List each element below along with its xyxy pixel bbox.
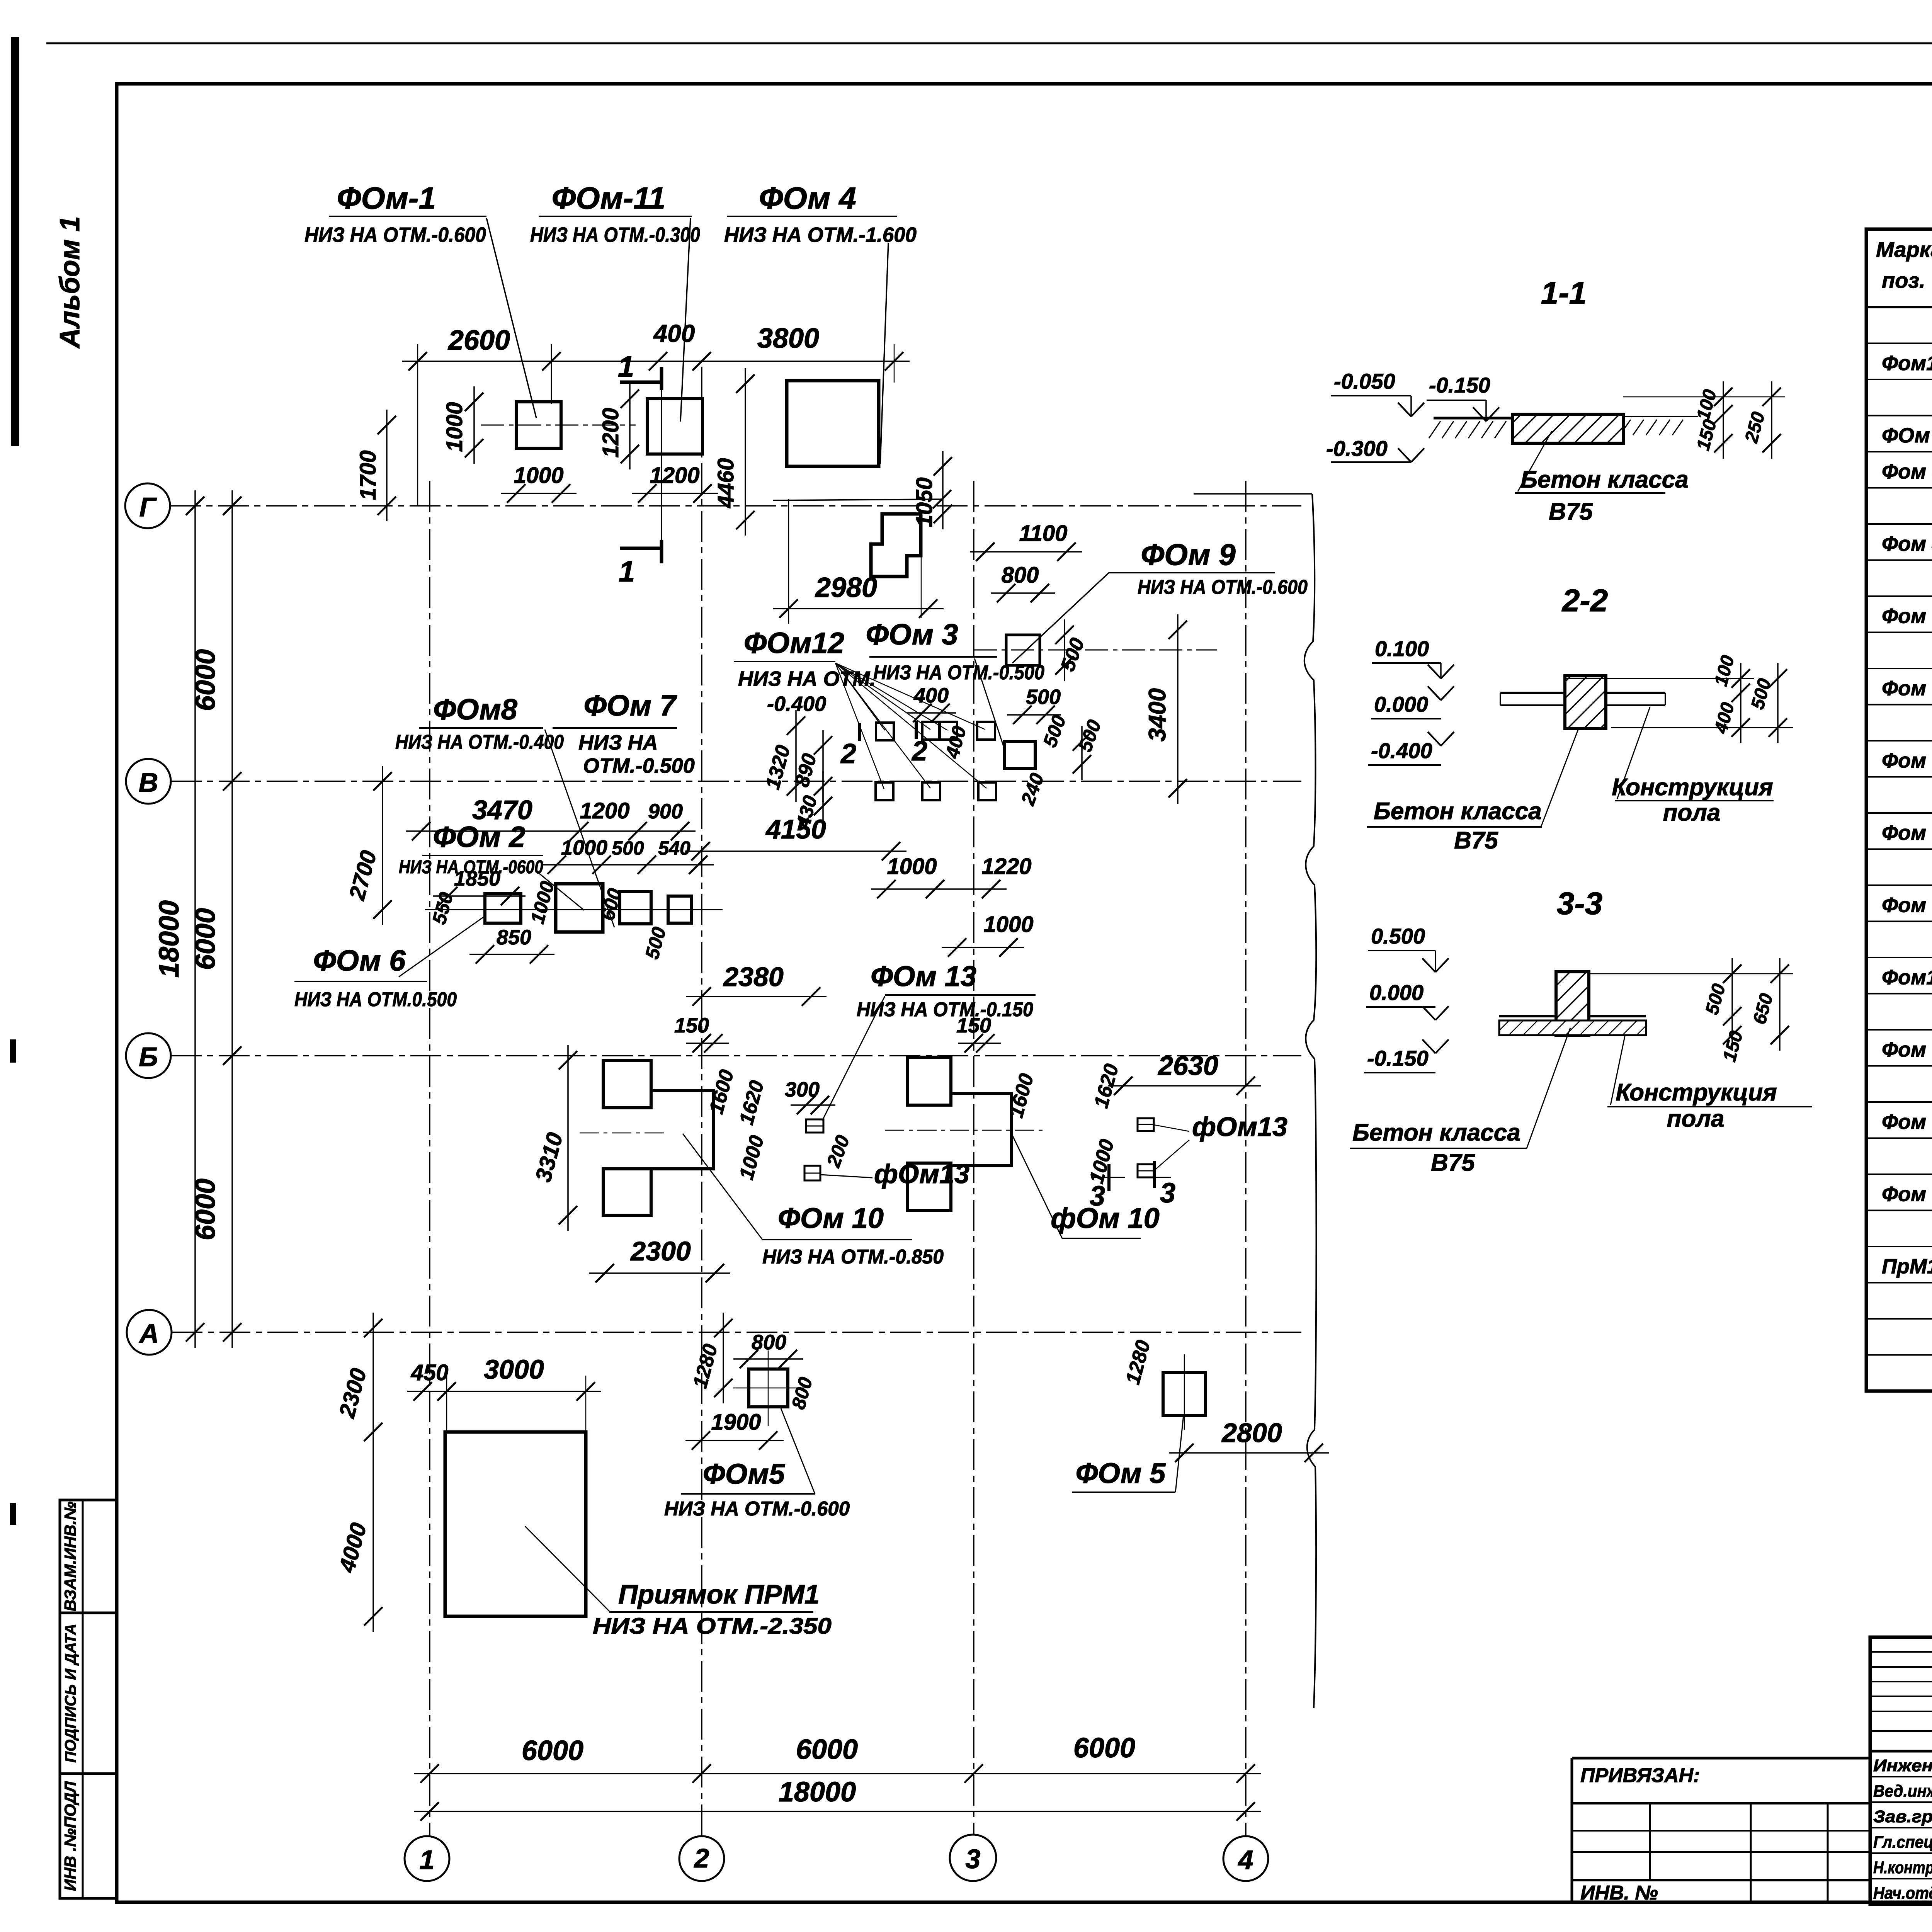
dim 2700 rotated (382, 766, 383, 925)
svg-text:850: 850 (497, 926, 531, 949)
dim 1200 left of ФОм-11 (629, 383, 631, 469)
svg-text:НИЗ НА ОТМ.-2.350: НИЗ НА ОТМ.-2.350 (593, 1614, 832, 1639)
svg-text:3: 3 (1160, 1178, 1175, 1209)
dims right of 2-2 (1611, 727, 1793, 728)
svg-text:1850: 1850 (454, 867, 500, 890)
svg-text:400: 400 (913, 684, 949, 707)
axis Б line (171, 1055, 1301, 1056)
svg-text:150: 150 (956, 1014, 991, 1037)
svg-text:поз.: поз. (1882, 268, 1925, 293)
svg-text:1100: 1100 (1019, 521, 1068, 546)
svg-text:0.000: 0.000 (1369, 980, 1423, 1005)
svg-text:ОТМ.-0.500: ОТМ.-0.500 (583, 754, 695, 777)
svg-text:ФОм 2: ФОм 2 (433, 821, 526, 854)
svg-text:НИЗ НА ОТМ.-0.150: НИЗ НА ОТМ.-0.150 (857, 998, 1033, 1021)
svg-text:400: 400 (653, 320, 695, 347)
svg-text:Фом 13: Фом 13 (1882, 1183, 1932, 1206)
foundation ФОм10 right top square (907, 1057, 951, 1105)
svg-text:фОм 10: фОм 10 (1051, 1202, 1160, 1234)
svg-text:1-1: 1-1 (1541, 276, 1587, 311)
foundation ФОм13 right 1 (1138, 1118, 1154, 1131)
axis 2 circle (679, 1836, 724, 1881)
dims right of 3-3 (1589, 973, 1793, 975)
leader ФОм5 left (781, 1408, 815, 1494)
dim 450/3000 (407, 1391, 601, 1392)
stamp strip border (60, 1500, 117, 1898)
centerline ФОм10 left (580, 1133, 665, 1134)
svg-text:0.100: 0.100 (1375, 636, 1429, 661)
dim 800 ФОм9 (991, 592, 1055, 594)
dim 2800 (1169, 1452, 1329, 1454)
svg-text:4150: 4150 (765, 814, 826, 844)
floor slab right 2-2 (1606, 692, 1665, 694)
floor slab 3-3 hatched (1499, 1015, 1556, 1017)
svg-text:Б: Б (139, 1042, 158, 1072)
dim 1100 (970, 551, 1082, 553)
axis 3 line (973, 481, 975, 1835)
svg-text:1000: 1000 (887, 854, 937, 879)
dim chain 18000 vertical (194, 490, 196, 1348)
foundation section 2-2 hatched (1565, 676, 1606, 729)
svg-text:фОм13: фОм13 (1192, 1112, 1287, 1142)
svg-text:А: А (139, 1318, 159, 1349)
dim 3310 rotated (567, 1045, 569, 1231)
leader ФОм8 (545, 730, 614, 927)
leader ФОм13 top (822, 996, 885, 1121)
svg-text:-0.050: -0.050 (1334, 369, 1395, 393)
section mark 1 top (620, 381, 662, 384)
svg-text:ФОм 6: ФОм 6 (313, 944, 406, 977)
axis 1 circle (405, 1836, 449, 1881)
dim 3400 (1177, 614, 1179, 804)
svg-text:В: В (139, 767, 158, 798)
svg-text:Фом 6: Фом 6 (1882, 677, 1932, 700)
section mark 3 right (1153, 1161, 1156, 1188)
svg-text:540: 540 (658, 837, 690, 859)
foundation ФОм 2 (556, 884, 603, 932)
svg-text:ВЗАМ.ИНВ.№: ВЗАМ.ИНВ.№ (61, 1502, 79, 1611)
svg-text:1700: 1700 (355, 450, 381, 500)
svg-text:Фом 5: Фом 5 (1882, 605, 1932, 628)
dim 400 cluster (907, 712, 956, 714)
svg-text:2-2: 2-2 (1561, 583, 1608, 618)
foundation ФОм13 small 2 (804, 1166, 820, 1180)
svg-text:ФОм 13: ФОм 13 (871, 960, 976, 992)
dim chain 1000/500/540 (541, 864, 714, 866)
svg-text:Конструкция: Конструкция (1612, 774, 1773, 801)
dim 2380 Б (686, 996, 827, 997)
svg-text:В75: В75 (1431, 1150, 1475, 1176)
svg-text:6000: 6000 (522, 1735, 583, 1766)
dim 500 rotated right of block (1081, 726, 1083, 780)
svg-text:-0.400: -0.400 (1371, 738, 1432, 763)
svg-text:ФОм 9: ФОм 9 (1141, 537, 1236, 571)
dim chain 3470/1200/900 (406, 830, 696, 832)
dim 1200 below ФОм-11 (632, 493, 718, 494)
svg-text:3000: 3000 (484, 1354, 544, 1384)
centerline ФОм10 right (885, 1130, 1043, 1131)
svg-text:ФОм8: ФОм8 (433, 693, 518, 726)
svg-text:18000: 18000 (779, 1777, 856, 1808)
svg-text:НИЗ НА ОТМ.-0.600: НИЗ НА ОТМ.-0.600 (664, 1498, 850, 1520)
svg-text:1: 1 (420, 1845, 435, 1875)
foundation ФОм 7 block (620, 891, 651, 924)
leader фОм13 mid (820, 1175, 872, 1178)
ground line left (1434, 417, 1512, 420)
foundation ФОм10 left bottom square (603, 1169, 651, 1215)
svg-text:Фом 8: Фом 8 (1882, 821, 1932, 845)
leader ФОм10 left (683, 1134, 762, 1240)
ground line right (1623, 416, 1698, 417)
svg-text:Фом 11: Фом 11 (1882, 1038, 1932, 1061)
leader ФОм 2 (535, 870, 584, 910)
svg-text:300: 300 (785, 1078, 820, 1101)
leaders ФОм12 fan (835, 663, 885, 730)
section mark 2 left (858, 723, 861, 741)
svg-text:1220: 1220 (981, 854, 1031, 879)
album page top edge (46, 43, 1932, 44)
svg-text:-0.150: -0.150 (1367, 1046, 1429, 1070)
svg-text:Фом 3: Фом 3 (1882, 460, 1932, 483)
svg-text:ИНВ. №: ИНВ. № (1580, 1882, 1658, 1904)
axis Г line (170, 505, 1301, 507)
foundation ФОм-11 (647, 399, 702, 454)
leader ФОм 3 (975, 658, 1005, 750)
svg-text:2: 2 (840, 738, 856, 769)
svg-text:Вед.инж: Вед.инж (1873, 1782, 1932, 1801)
svg-text:Приямок ПРМ1: Приямок ПРМ1 (618, 1579, 820, 1609)
svg-text:ПОДПИСЬ И ДАТА: ПОДПИСЬ И ДАТА (62, 1624, 79, 1763)
svg-text:НИЗ НА ОТМ.0.500: НИЗ НА ОТМ.0.500 (294, 988, 457, 1011)
dim line top 2600/400/3800 (402, 361, 910, 362)
dim 1000 bottom (942, 947, 1024, 948)
svg-text:2300: 2300 (630, 1236, 691, 1266)
title block signature rows (1870, 1776, 1932, 1777)
svg-text:Бетон класса: Бетон класса (1520, 466, 1689, 493)
leaders фОм13 right (1154, 1125, 1189, 1131)
svg-text:1000: 1000 (983, 912, 1033, 937)
leader ФОм5 right (1175, 1415, 1184, 1492)
title block outer (1870, 1637, 1932, 1904)
svg-text:6000: 6000 (1073, 1733, 1135, 1764)
dim 2630 (1108, 1085, 1261, 1087)
foundation ФОм10 left connector (651, 1090, 713, 1169)
svg-text:2980: 2980 (815, 572, 877, 603)
svg-text:1000: 1000 (561, 836, 607, 859)
svg-text:Зав.гр.: Зав.гр. (1873, 1807, 1932, 1826)
foundation ФОм10 right connector (951, 1094, 1012, 1166)
dim 500 cluster right (1007, 714, 1061, 716)
dim chain 4150/1000/1220 (685, 850, 906, 852)
svg-text:18000: 18000 (154, 900, 185, 978)
svg-text:4: 4 (1238, 1845, 1253, 1875)
svg-text:Фом1: Фом1 (1882, 352, 1932, 375)
svg-text:800: 800 (1002, 563, 1039, 588)
dim 1900 (685, 1440, 784, 1441)
foundation ФОм5 right (1163, 1372, 1206, 1415)
axis 2 line (701, 367, 702, 1835)
dims right of 1-1 (1623, 396, 1785, 398)
leader Бетон класса 1-1 (1518, 431, 1552, 492)
foundation ФОм 8 block (668, 896, 691, 923)
svg-text:ФОм12: ФОм12 (744, 627, 844, 660)
foundation ФОм 3 block (1004, 742, 1035, 769)
svg-text:ФОм 2: ФОм 2 (1882, 424, 1932, 447)
svg-text:ПрМ1: ПрМ1 (1882, 1255, 1932, 1278)
svg-text:3-3: 3-3 (1557, 886, 1603, 921)
dim 2300/4000 vertical (372, 1313, 374, 1632)
svg-text:ФОм 7: ФОм 7 (584, 689, 678, 722)
svg-text:-0.300: -0.300 (1326, 436, 1388, 461)
leader ФОм 4 (880, 243, 888, 464)
svg-text:0.000: 0.000 (1374, 692, 1428, 716)
svg-text:500: 500 (612, 837, 644, 859)
svg-text:Бетон класса: Бетон класса (1352, 1119, 1520, 1146)
dim 1700 (386, 410, 388, 521)
dim 850 (469, 954, 554, 955)
svg-text:1000: 1000 (442, 402, 467, 452)
svg-text:НИЗ НА ОТМ.-0.600: НИЗ НА ОТМ.-0.600 (304, 223, 486, 247)
svg-text:900: 900 (648, 800, 683, 823)
axis 4 line (1245, 481, 1247, 1835)
leader ПРМ1 (525, 1526, 609, 1611)
dim 1280 rotated left (723, 1313, 724, 1403)
pit ПРМ1 extension lines (446, 1376, 447, 1434)
axis 3 circle (950, 1835, 996, 1881)
dim 2980 (773, 608, 944, 609)
leader ФОм 9 (1012, 573, 1109, 663)
svg-text:2: 2 (911, 736, 927, 767)
dim 1850 (433, 895, 526, 897)
svg-text:НИЗ НА: НИЗ НА (578, 731, 658, 754)
dim 4460 (745, 368, 746, 536)
dim 1320 rotated (795, 710, 797, 802)
svg-text:НИЗ НА ОТМ.-0.850: НИЗ НА ОТМ.-0.850 (762, 1246, 944, 1268)
stamp strip divider vertical (82, 1500, 84, 1898)
svg-text:4460: 4460 (713, 458, 738, 508)
foundation ФОм5 left (749, 1369, 788, 1407)
svg-text:Фом10: Фом10 (1882, 966, 1932, 989)
floor slab left 2-2 (1500, 692, 1565, 694)
svg-text:Марка,: Марка, (1876, 237, 1932, 262)
dim 500 ФОм9 (1064, 619, 1065, 681)
dim 150 left (686, 1043, 729, 1044)
title block small grid rows (1870, 1651, 1932, 1653)
dim 890 rotated (822, 730, 824, 802)
section cut line 1 (661, 390, 662, 540)
axis Б circle (126, 1033, 171, 1078)
svg-text:Г: Г (139, 492, 157, 522)
svg-text:450: 450 (411, 1360, 449, 1385)
svg-text:Фом 9: Фом 9 (1882, 894, 1932, 917)
leader ФОм-11 (680, 218, 690, 422)
svg-text:Конструкция: Конструкция (1616, 1079, 1777, 1106)
svg-text:2: 2 (694, 1843, 709, 1873)
svg-text:6000: 6000 (796, 1734, 858, 1765)
svg-text:ФОм 4: ФОм 4 (759, 181, 856, 215)
plan break line (1194, 493, 1312, 495)
svg-text:800: 800 (752, 1331, 786, 1354)
dim 430 rotated (822, 771, 824, 821)
foundation ФОм13 right 2 (1138, 1164, 1154, 1177)
svg-text:Фом 12: Фом 12 (1882, 1111, 1932, 1134)
svg-text:ФОм5: ФОм5 (703, 1458, 786, 1490)
svg-text:-0.150: -0.150 (1429, 373, 1490, 397)
dim 800 top (733, 1358, 803, 1360)
foundation ФОм 4 (787, 381, 879, 466)
svg-text:ФОм-11: ФОм-11 (552, 181, 666, 215)
svg-text:3: 3 (966, 1844, 981, 1874)
foundation ФОм10 left top square (603, 1060, 651, 1108)
axis Г circle (125, 483, 170, 528)
svg-text:Фом 7: Фом 7 (1882, 749, 1932, 772)
cluster centerline (425, 909, 723, 910)
svg-text:Альбом 1: Альбом 1 (54, 216, 85, 349)
foundation ФОм-1 (516, 402, 561, 448)
svg-text:В75: В75 (1549, 498, 1593, 525)
foundation section 3-3 column hatched (1556, 972, 1589, 1035)
svg-text:НИЗ НА ОТМ.-0.300: НИЗ НА ОТМ.-0.300 (530, 223, 700, 247)
svg-text:2630: 2630 (1157, 1051, 1218, 1081)
extension lines top dims (417, 344, 418, 506)
foundation stepped outline 2980 (871, 514, 921, 577)
dim chain 6000/6000/6000 vertical (231, 490, 233, 1348)
svg-text:НИЗ НА ОТМ.-0.400: НИЗ НА ОТМ.-0.400 (395, 731, 564, 753)
svg-text:1200: 1200 (598, 408, 623, 457)
svg-text:Нач.отд: Нач.отд (1873, 1884, 1932, 1903)
svg-text:3400: 3400 (1144, 688, 1171, 742)
dim 1000 below ФОм-1 (501, 493, 577, 494)
svg-text:500: 500 (1026, 685, 1061, 709)
svg-text:1: 1 (619, 555, 635, 588)
section mark 1 bottom (620, 547, 662, 550)
dim line above stepped (773, 499, 942, 500)
svg-text:ФОм 10: ФОм 10 (778, 1202, 884, 1234)
foundation ФОм 6 (485, 894, 521, 923)
foundation ФОм 9 (1006, 635, 1040, 665)
svg-text:1900: 1900 (711, 1410, 761, 1435)
svg-text:НИЗ НА ОТМ.-0.500: НИЗ НА ОТМ.-0.500 (873, 662, 1044, 684)
section mark 3 left (1107, 1164, 1111, 1191)
svg-text:2380: 2380 (723, 962, 784, 992)
svg-text:2800: 2800 (1221, 1418, 1282, 1448)
dim 1000 left of ФОм-1 (473, 386, 475, 464)
svg-text:НИЗ НА ОТМ.-0.600: НИЗ НА ОТМ.-0.600 (1138, 576, 1308, 599)
svg-text:Инжен.: Инжен. (1873, 1756, 1932, 1775)
dim chain bottom 6000x3 (414, 1773, 1261, 1774)
svg-text:ФОм 5: ФОм 5 (1076, 1457, 1167, 1489)
svg-text:1: 1 (618, 350, 634, 383)
pit ПРМ1 (445, 1432, 586, 1616)
stamp strip divider rows (60, 1612, 117, 1614)
dim 2300 (589, 1272, 730, 1274)
dim 1050 (942, 451, 944, 529)
scan binder mark left edge (11, 37, 19, 446)
foundation ФОм10 right bottom square (907, 1163, 951, 1211)
spec table grid (1866, 229, 1932, 1391)
svg-text:1200: 1200 (580, 798, 629, 823)
axis В circle (126, 759, 171, 804)
svg-text:1200: 1200 (650, 463, 699, 488)
svg-text:В75: В75 (1454, 827, 1498, 854)
foundation ФОм12 squares bottom row (876, 782, 893, 800)
svg-text:ПРИВЯЗАН:: ПРИВЯЗАН: (1580, 1764, 1700, 1787)
svg-text:3800: 3800 (757, 323, 819, 354)
dim 300 (791, 1104, 835, 1106)
svg-text:пола: пола (1667, 1105, 1725, 1132)
svg-text:Гл.спец.: Гл.спец. (1873, 1833, 1932, 1852)
leader ФОм-1 (486, 218, 536, 418)
svg-text:1050: 1050 (912, 477, 937, 527)
dim chain bottom 18000 (414, 1811, 1261, 1812)
privyazan box (1572, 1758, 1870, 1904)
svg-text:пола: пола (1663, 799, 1721, 826)
foundation section 1-1 hatched (1512, 414, 1623, 443)
foundation ФОм13 small 1 (806, 1119, 823, 1133)
axis А line (172, 1332, 1301, 1333)
svg-text:1000: 1000 (514, 463, 563, 488)
leader ФОм10 right (1012, 1134, 1062, 1238)
svg-text:0.500: 0.500 (1371, 924, 1425, 948)
svg-text:Н.контр.: Н.контр. (1873, 1858, 1932, 1877)
svg-text:ИНВ .№ПОДЛ: ИНВ .№ПОДЛ (61, 1781, 79, 1891)
dim 1000 1220 lower (871, 888, 1007, 890)
axis 1 line (429, 481, 430, 1835)
svg-text:ФОм-1: ФОм-1 (337, 181, 436, 215)
foundation ФОм12 squares top row (876, 723, 894, 740)
axis А circle (127, 1310, 172, 1355)
dim 150 right (958, 1043, 1001, 1044)
axis 4 circle (1223, 1836, 1268, 1881)
svg-text:Бетон класса: Бетон класса (1374, 798, 1542, 825)
section mark 2 right (915, 721, 918, 739)
svg-text:150: 150 (674, 1014, 709, 1037)
axis В line (171, 781, 1301, 782)
svg-text:Фом 4: Фом 4 (1882, 532, 1932, 556)
title block main horizontals (1870, 1750, 1932, 1753)
svg-text:2600: 2600 (447, 325, 510, 356)
leader ФОм 6 (399, 916, 485, 977)
svg-text:ФОм 3: ФОм 3 (866, 618, 958, 651)
